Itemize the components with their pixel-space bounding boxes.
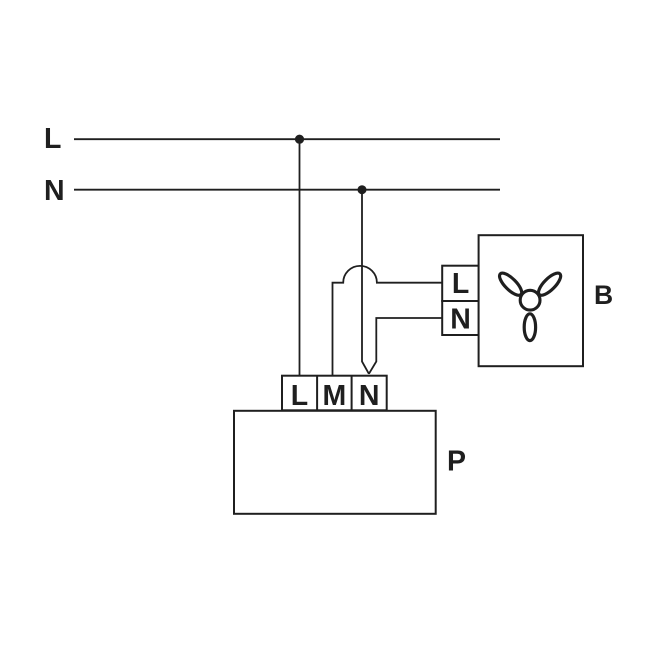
wire from N bus to arrow at terminal N of P bbox=[362, 190, 369, 374]
junction dot on L bus bbox=[295, 135, 304, 144]
box P (device) bbox=[234, 411, 436, 514]
svg-text:N: N bbox=[44, 175, 65, 207]
wire L bus bbox=[74, 138, 500, 140]
wire from L bus to terminal L of P bbox=[299, 139, 301, 376]
terminal strip of P (L M N) bbox=[282, 376, 387, 411]
box B (fan) bbox=[479, 235, 583, 366]
svg-text:N: N bbox=[359, 380, 380, 412]
fan terminal box N bbox=[442, 301, 479, 335]
svg-text:L: L bbox=[44, 123, 61, 155]
fan icon blade upper-left bbox=[496, 270, 525, 299]
wire from terminal M of P to fan terminal L (with hop over N wire) bbox=[333, 266, 443, 376]
svg-text:L: L bbox=[291, 380, 308, 412]
svg-text:P: P bbox=[447, 446, 466, 478]
wire N bus bbox=[74, 189, 500, 191]
svg-text:L: L bbox=[452, 268, 469, 300]
wire from fan terminal N to arrow at terminal N of P bbox=[369, 318, 442, 374]
fan icon hub bbox=[520, 290, 540, 310]
fan terminal box L bbox=[442, 266, 479, 301]
svg-text:B: B bbox=[594, 280, 613, 310]
junction dot on N bus bbox=[358, 185, 367, 194]
fan icon blade bottom bbox=[524, 314, 535, 341]
svg-text:M: M bbox=[323, 380, 347, 412]
svg-text:N: N bbox=[450, 304, 471, 336]
terminal divider M/N bbox=[351, 376, 353, 411]
terminal divider L/M bbox=[316, 376, 318, 411]
fan icon blade upper-right bbox=[535, 270, 564, 299]
